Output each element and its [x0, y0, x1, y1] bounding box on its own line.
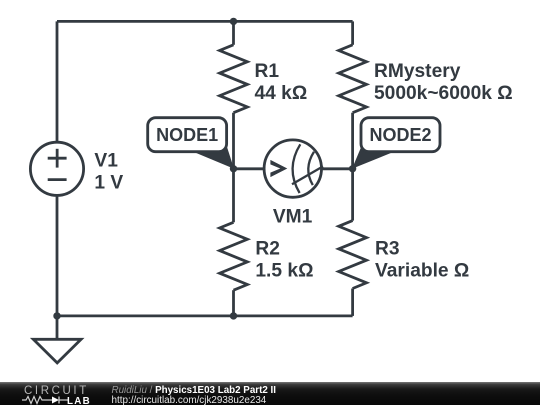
svg-text:1.5 kΩ: 1.5 kΩ [255, 261, 313, 282]
svg-text:R2: R2 [255, 239, 280, 260]
label R1 value text [255, 61, 308, 104]
wire R2 bottom lead [232, 290, 235, 316]
wire left vertical upper (top rail to V1) [56, 21, 59, 142]
wire NODE1 to R2 lead [232, 169, 235, 223]
label V1 value text [94, 150, 123, 193]
wire top rail [57, 20, 353, 23]
svg-text:NODE1: NODE1 [156, 125, 218, 145]
junction ground node [53, 312, 60, 319]
wire R3 bottom lead [351, 289, 354, 316]
footer attribution text [112, 385, 276, 396]
svg-text:44 kΩ: 44 kΩ [255, 83, 308, 104]
svg-text:1 V: 1 V [94, 172, 123, 193]
wire R1 bottom lead to NODE1 [232, 113, 235, 169]
footer bar [0, 382, 540, 405]
svg-text:R3: R3 [375, 239, 400, 260]
wire R1 top lead [232, 21, 235, 44]
resistor RMystery [339, 45, 367, 113]
ground [33, 316, 81, 363]
wire left vertical lower (V1 to bottom rail) [56, 195, 59, 316]
junction NODE2 [349, 165, 356, 172]
node flag NODE2 [352, 118, 440, 169]
label RMystery value text [374, 61, 513, 104]
wire RMystery top lead [351, 21, 354, 44]
junction bottom node (R2 tap) [230, 312, 237, 319]
label R3 value text [375, 239, 469, 282]
svg-text:Variable Ω: Variable Ω [375, 261, 469, 282]
footer logo CIRCUIT [24, 385, 89, 397]
svg-text:RMystery: RMystery [374, 61, 461, 82]
wire NODE1 to voltmeter [234, 167, 266, 170]
wire RMystery bottom lead to NODE2 [351, 113, 354, 169]
svg-text:LAB: LAB [67, 396, 91, 405]
wire bottom rail [57, 314, 353, 317]
junction top node (R1 tap) [230, 18, 237, 25]
wire NODE2 to R3 lead [351, 169, 354, 221]
svg-text:5000k~6000k Ω: 5000k~6000k Ω [374, 83, 513, 104]
label VM1 text [273, 207, 313, 228]
svg-text:NODE2: NODE2 [369, 125, 431, 145]
label R2 value text [255, 239, 313, 282]
resistor R3 [339, 221, 367, 289]
svg-text:VM1: VM1 [273, 207, 313, 228]
voltmeter VM1 [264, 140, 323, 197]
wire NODE2 to voltmeter [321, 167, 353, 170]
resistor R2 [220, 222, 248, 290]
svg-text:V1: V1 [94, 150, 118, 171]
voltage source V1 [30, 142, 83, 195]
footer url text [112, 395, 267, 406]
svg-text:R1: R1 [255, 61, 280, 82]
node flag NODE1 [148, 118, 234, 169]
junction NODE1 [230, 165, 237, 172]
footer logo resistor-diode icon and LAB [22, 395, 97, 405]
resistor R1 [220, 45, 248, 113]
